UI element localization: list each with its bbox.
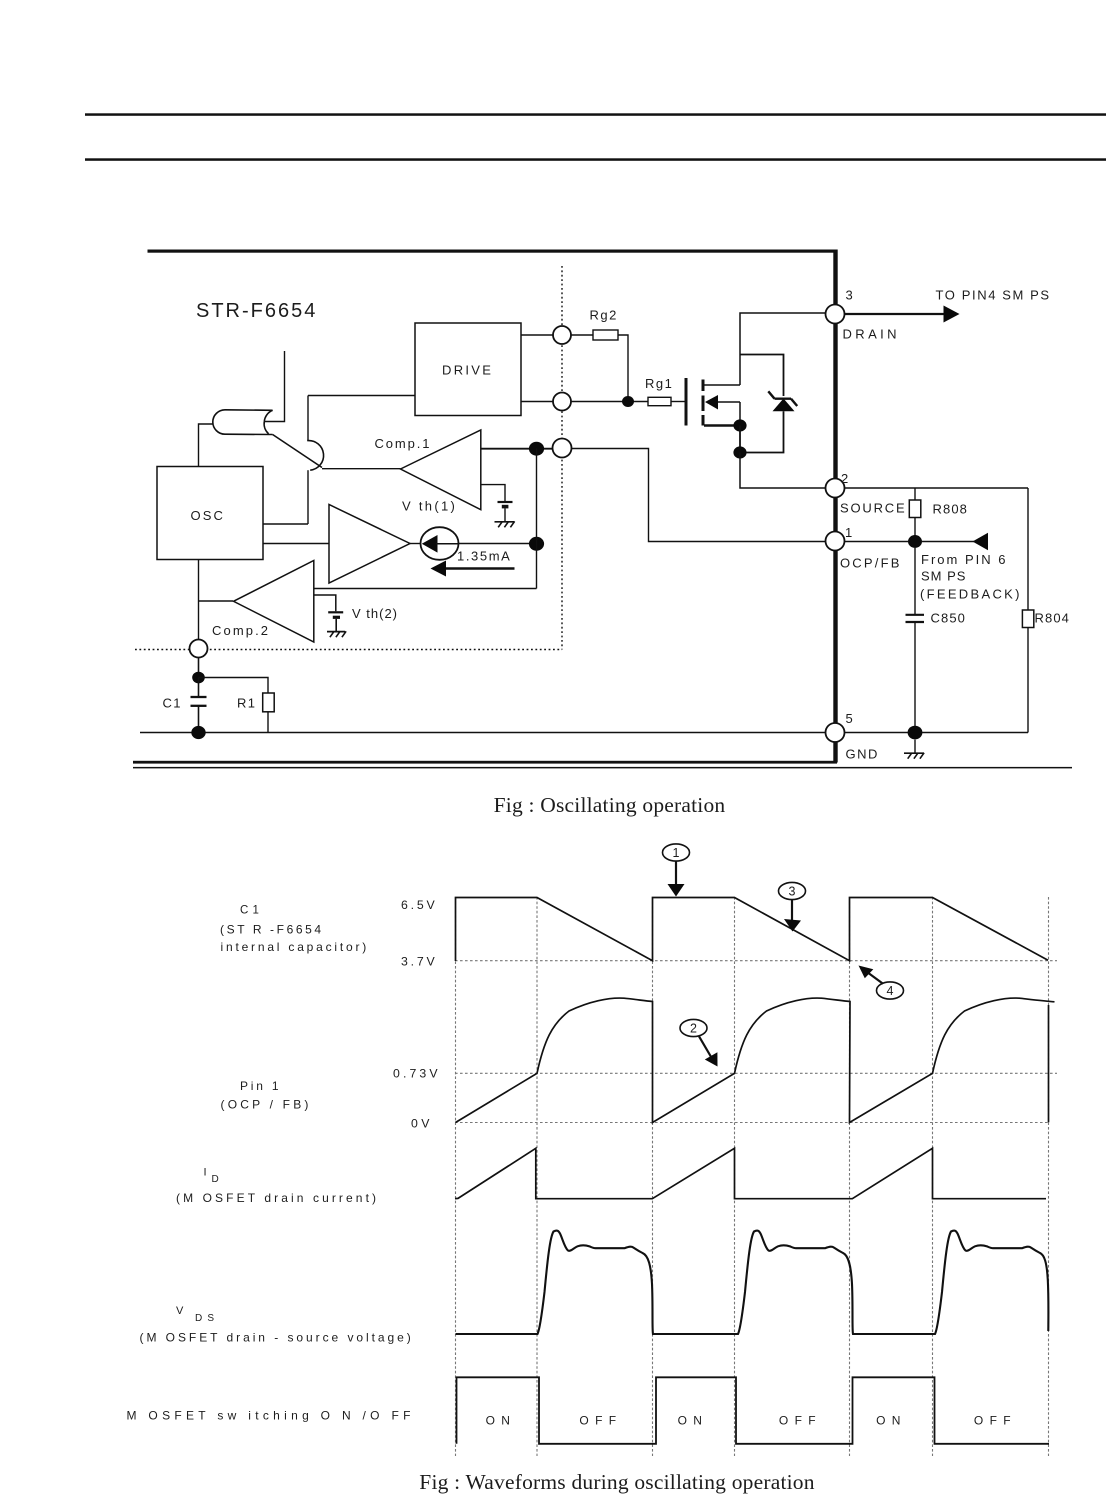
svg-text:(ST R -F6654: (ST R -F6654	[220, 923, 324, 937]
svg-text:O N: O N	[876, 1414, 902, 1428]
svg-text:O F F: O F F	[779, 1414, 817, 1428]
svg-text:3: 3	[789, 884, 796, 898]
svg-text:OSC: OSC	[191, 508, 225, 523]
svg-text:SM PS: SM PS	[921, 569, 966, 584]
svg-text:internal capacitor): internal capacitor)	[221, 940, 370, 954]
svg-text:Rg2: Rg2	[590, 308, 618, 323]
svg-text:R804: R804	[1035, 611, 1070, 626]
svg-text:OCP/FB: OCP/FB	[840, 556, 902, 571]
svg-text:R808: R808	[933, 502, 968, 517]
svg-text:(FEEDBACK): (FEEDBACK)	[920, 587, 1022, 602]
svg-text:V: V	[176, 1305, 184, 1317]
svg-text:Comp.2: Comp.2	[212, 623, 270, 638]
svg-text:2: 2	[841, 471, 848, 486]
svg-text:D: D	[212, 1174, 219, 1185]
svg-text:Comp.1: Comp.1	[375, 436, 432, 451]
svg-text:1: 1	[845, 525, 852, 540]
svg-text:C1: C1	[163, 696, 182, 711]
svg-text:(M OSFET drain current): (M OSFET drain current)	[176, 1191, 379, 1205]
svg-text:DRIVE: DRIVE	[442, 363, 493, 378]
svg-text:O N: O N	[678, 1414, 704, 1428]
svg-text:V th(2): V th(2)	[352, 606, 398, 621]
svg-text:SOURCE: SOURCE	[840, 501, 906, 516]
svg-text:I: I	[204, 1167, 207, 1179]
svg-text:From PIN 6: From PIN 6	[921, 552, 1007, 567]
svg-text:(M OSFET drain - source voltag: (M OSFET drain - source voltage)	[140, 1331, 414, 1345]
svg-text:Pin 1: Pin 1	[240, 1079, 281, 1093]
svg-text:5: 5	[846, 711, 853, 726]
svg-text:DRAIN: DRAIN	[843, 327, 900, 342]
svg-text:M OSFET sw itching O N /O FF: M OSFET sw itching O N /O FF	[127, 1409, 415, 1423]
svg-text:C 1: C 1	[240, 904, 259, 916]
svg-text:GND: GND	[846, 747, 879, 762]
svg-text:(OCP / FB): (OCP / FB)	[221, 1098, 312, 1112]
svg-text:O N: O N	[486, 1414, 512, 1428]
svg-text:4: 4	[887, 984, 894, 998]
svg-text:0.73V: 0.73V	[393, 1067, 441, 1081]
svg-text:D S: D S	[195, 1313, 215, 1324]
svg-text:1.35mA: 1.35mA	[457, 549, 511, 564]
svg-text:Fig : Waveforms during oscilla: Fig : Waveforms during oscillating opera…	[419, 1470, 814, 1494]
svg-text:3.7V: 3.7V	[401, 954, 438, 968]
svg-text:TO PIN4 SM PS: TO PIN4 SM PS	[936, 288, 1051, 303]
svg-text:O F F: O F F	[974, 1414, 1012, 1428]
svg-text:STR-F6654: STR-F6654	[196, 300, 317, 322]
svg-text:R1: R1	[237, 696, 256, 711]
svg-text:C850: C850	[931, 611, 966, 626]
svg-text:6.5V: 6.5V	[401, 898, 438, 912]
svg-text:Rg1: Rg1	[645, 376, 673, 391]
svg-text:3: 3	[846, 288, 853, 303]
svg-text:0V: 0V	[411, 1117, 433, 1131]
svg-text:V th(1): V th(1)	[402, 499, 457, 514]
svg-text:2: 2	[690, 1021, 697, 1035]
svg-text:Fig : Oscillating operation: Fig : Oscillating operation	[494, 793, 726, 817]
svg-text:1: 1	[673, 846, 680, 860]
svg-text:O F F: O F F	[579, 1414, 617, 1428]
